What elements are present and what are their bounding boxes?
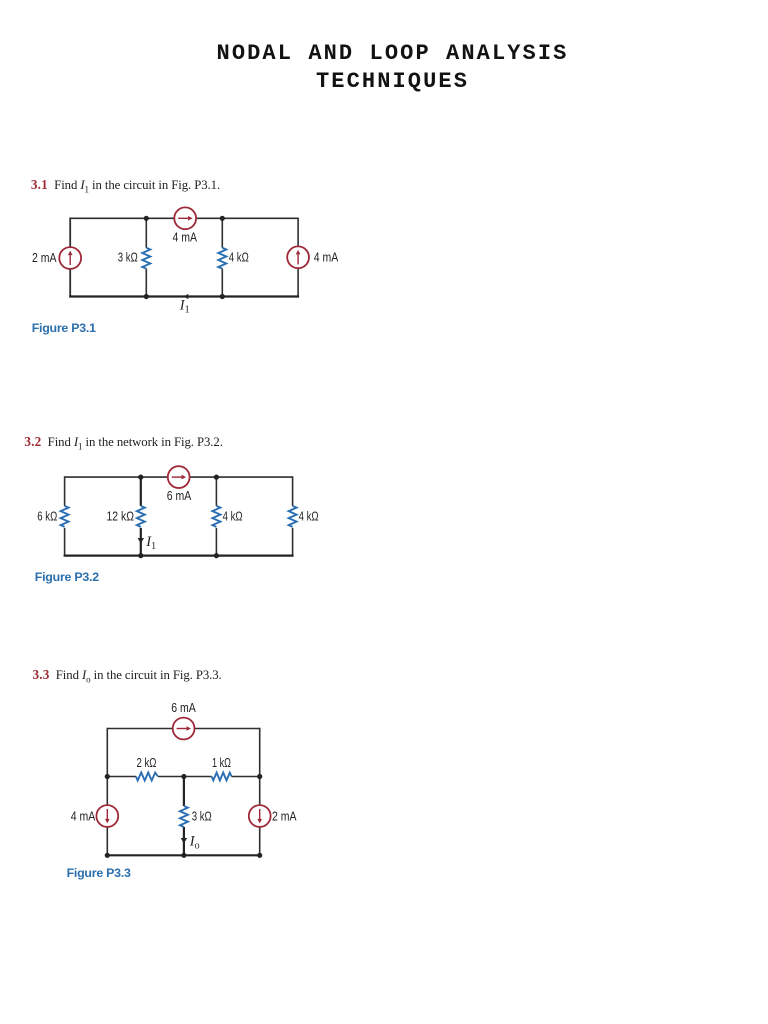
resistor 3 kOhm [180, 806, 188, 827]
figure label P3.3 [67, 866, 131, 880]
problem 3.1 text [31, 177, 220, 195]
circuit figure P3.3 [40, 692, 380, 867]
svg-text:4 kΩ: 4 kΩ [299, 510, 319, 524]
wire: right vertical bottom [292, 528, 294, 557]
svg-text:2 kΩ: 2 kΩ [137, 756, 157, 770]
resistor 6 kOhm [61, 506, 69, 527]
current source 2 mA [59, 247, 81, 269]
svg-text:6 kΩ: 6 kΩ [37, 510, 57, 524]
svg-text:2 mA: 2 mA [32, 251, 57, 265]
svg-text:12 kΩ: 12 kΩ [107, 510, 135, 524]
wire: 4k branch top [215, 477, 217, 506]
wire: 3k branch bottom [145, 269, 147, 297]
wire: left vertical [69, 218, 71, 298]
node dot top 4k [214, 475, 219, 480]
svg-text:4 mA: 4 mA [71, 809, 96, 823]
wire: middle horizontal center [158, 776, 212, 778]
wire: top left segment [65, 476, 168, 478]
svg-text:2 mA: 2 mA [272, 809, 297, 823]
arrow Io [181, 838, 187, 844]
wire: top right segment [197, 217, 298, 219]
wire: bottom [64, 554, 294, 556]
wire: bottom [106, 854, 260, 856]
wire: top left segment [70, 217, 174, 219]
node dot bottom-right [220, 294, 225, 299]
node dot top 12k [138, 475, 143, 480]
wire: bottom [69, 295, 299, 297]
wire: middle horizontal right [232, 776, 260, 778]
wire: left vertical [106, 728, 108, 856]
svg-text:4 kΩ: 4 kΩ [229, 250, 249, 264]
svg-text:I1: I1 [145, 534, 156, 552]
resistor 3 kOhm [142, 248, 150, 269]
wire: right vertical [259, 728, 261, 856]
arrow I1 on bottom wire [184, 294, 189, 299]
circuit figure P3.1 [20, 196, 350, 316]
resistor 4 kOhm right [289, 506, 297, 527]
svg-text:4 mA: 4 mA [173, 230, 198, 244]
wire: top right segment [195, 728, 260, 730]
title [0, 40, 768, 96]
arrow I1 [138, 538, 144, 544]
svg-text:3 kΩ: 3 kΩ [192, 809, 212, 823]
resistor 4 kOhm mid [212, 506, 220, 527]
resistor 2 kOhm [136, 773, 158, 781]
current source 4 mA [96, 805, 118, 827]
wire: 3k branch top [145, 218, 147, 248]
wire: 12k branch top [140, 477, 142, 506]
svg-text:I1: I1 [179, 298, 190, 316]
node dot bottom-left [144, 294, 149, 299]
node dot bottom-right [257, 853, 262, 858]
current source 6 mA [168, 466, 190, 488]
current source 2 mA [249, 805, 271, 827]
node dot mid-left [105, 774, 110, 779]
figure label P3.2 [35, 570, 99, 584]
svg-text:6 mA: 6 mA [171, 701, 196, 715]
svg-text:4 kΩ: 4 kΩ [223, 510, 243, 524]
node dot mid-right [257, 774, 262, 779]
resistor 1 kOhm [212, 773, 232, 781]
wire: 12k branch bottom with I1 [140, 528, 142, 556]
node dot bottom-left [105, 853, 110, 858]
wire: middle vertical top [183, 777, 185, 807]
resistor 12 kOhm [137, 506, 145, 527]
wire: right vertical top [292, 476, 294, 506]
node dot bottom 4k [214, 553, 219, 558]
problem 3.2 text [24, 434, 222, 452]
problem 3.3 text [33, 667, 222, 685]
figure label P3.1 [32, 321, 96, 335]
circuit figure P3.2 [20, 458, 365, 563]
wire: 4k branch bottom [221, 269, 223, 297]
node dot mid-center [181, 774, 186, 779]
current source 4 mA top [174, 207, 196, 229]
wire: 4k branch bottom [215, 528, 217, 556]
svg-text:3 kΩ: 3 kΩ [118, 250, 138, 264]
current source 4 mA right [287, 246, 309, 268]
wire: top left segment [107, 728, 172, 730]
svg-text:6 mA: 6 mA [167, 489, 192, 503]
wire: left vertical bottom [64, 528, 66, 557]
wire: left vertical top [64, 476, 66, 506]
resistor 4 kOhm [218, 248, 226, 269]
wire: right vertical [297, 218, 299, 298]
svg-text:4 mA: 4 mA [314, 250, 339, 264]
current source 6 mA [173, 718, 195, 740]
node dot top-right [220, 216, 225, 221]
wire: top right segment [190, 476, 293, 478]
wire: 4k branch top [221, 218, 223, 248]
svg-text:Io: Io [189, 834, 200, 852]
node dot bottom-center [181, 853, 186, 858]
wire: middle vertical bottom [183, 827, 185, 855]
node dot top-left [144, 216, 149, 221]
wire: middle horizontal left [107, 776, 136, 778]
node dot bottom 12k [138, 553, 143, 558]
svg-text:1 kΩ: 1 kΩ [212, 756, 231, 770]
